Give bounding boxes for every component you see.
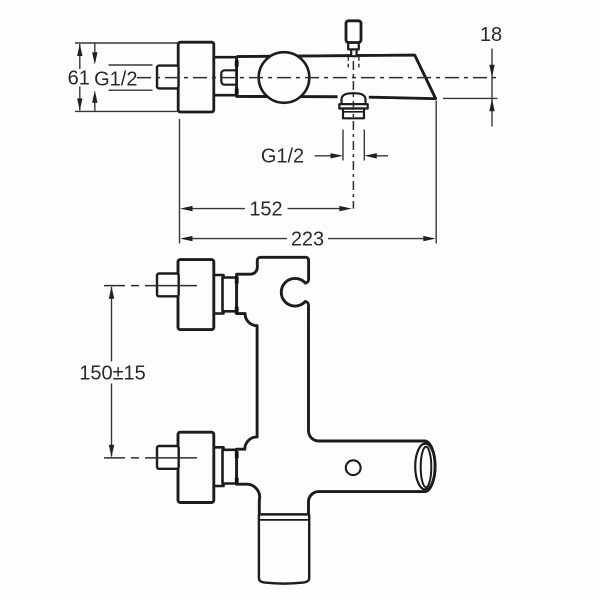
svg-text:G1/2: G1/2 [261,146,304,168]
svg-text:G1/2: G1/2 [94,69,137,91]
svg-text:150±15: 150±15 [79,363,146,385]
svg-text:18: 18 [480,24,502,46]
svg-text:152: 152 [249,199,282,221]
svg-text:223: 223 [291,229,324,251]
svg-text:61: 61 [68,68,90,90]
